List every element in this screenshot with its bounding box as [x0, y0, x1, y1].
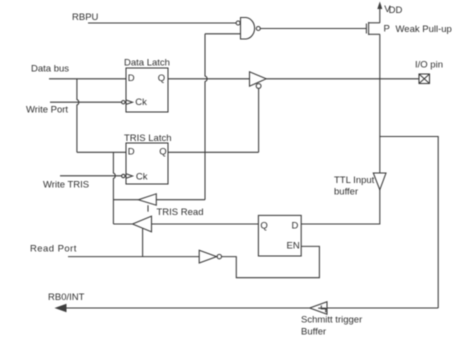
- svg-text:Write Port: Write Port: [26, 105, 68, 116]
- svg-text:Q: Q: [158, 73, 165, 84]
- svg-text:Q: Q: [159, 147, 166, 158]
- svg-text:Ck: Ck: [135, 97, 147, 108]
- svg-text:EN: EN: [287, 240, 300, 251]
- svg-text:Data Latch: Data Latch: [124, 57, 170, 68]
- svg-text:TRIS Read: TRIS Read: [157, 207, 204, 218]
- svg-text:Weak Pull-up: Weak Pull-up: [396, 24, 452, 35]
- svg-text:Buffer: Buffer: [301, 327, 326, 338]
- svg-text:Schmitt trigger: Schmitt trigger: [301, 315, 362, 326]
- svg-text:TTL Input: TTL Input: [334, 175, 375, 186]
- svg-text:D: D: [128, 147, 135, 158]
- svg-text:P: P: [384, 23, 390, 34]
- svg-text:D: D: [292, 220, 299, 231]
- svg-text:Data bus: Data bus: [31, 64, 69, 75]
- svg-text:TRIS Latch: TRIS Latch: [124, 133, 172, 144]
- svg-text:Write TRIS: Write TRIS: [43, 180, 89, 191]
- svg-text:I/O pin: I/O pin: [415, 60, 443, 71]
- svg-text:Ck: Ck: [136, 171, 148, 182]
- svg-text:buffer: buffer: [334, 187, 358, 198]
- svg-text:Read Port: Read Port: [30, 244, 77, 255]
- svg-text:Q: Q: [260, 220, 267, 231]
- svg-text:D: D: [128, 73, 135, 84]
- svg-text:RBPU: RBPU: [72, 12, 99, 23]
- svg-text:DD: DD: [389, 5, 403, 16]
- svg-text:RB0/INT: RB0/INT: [48, 292, 85, 303]
